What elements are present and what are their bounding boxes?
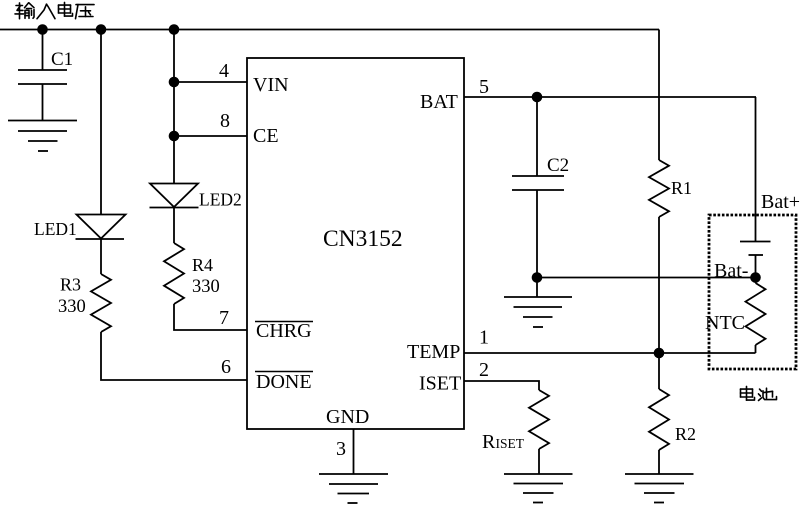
- svg-text:ISET: ISET: [419, 373, 461, 395]
- svg-text:VIN: VIN: [253, 74, 289, 96]
- svg-text:5: 5: [479, 76, 489, 98]
- wire: R4 to CHRG pin 7: [174, 304, 247, 330]
- wire: LED2 branch vertical: [173, 30, 175, 184]
- node: junction dot C2 tap: [532, 92, 543, 103]
- svg-text:8: 8: [220, 110, 230, 132]
- diode LED2: [150, 184, 199, 244]
- svg-text:6: 6: [221, 356, 231, 378]
- svg-text:DONE: DONE: [256, 371, 312, 393]
- pin name DONE with overline: [255, 371, 313, 393]
- svg-text:1: 1: [479, 327, 489, 349]
- svg-text:R2: R2: [675, 424, 696, 444]
- resistor R2: [649, 353, 669, 474]
- ground: below GND pin: [319, 474, 388, 503]
- svg-text:CN3152: CN3152: [323, 226, 403, 252]
- svg-text:LED1: LED1: [34, 219, 77, 239]
- ground: below C2: [504, 278, 572, 328]
- svg-text:330: 330: [58, 297, 86, 317]
- svg-text:7: 7: [219, 307, 229, 329]
- capacitor C1: [18, 30, 67, 121]
- svg-text:Bat+: Bat+: [761, 191, 800, 213]
- node: junction dot CE pin: [169, 131, 180, 142]
- svg-text:BAT: BAT: [420, 91, 458, 113]
- wire: CE pin 8: [174, 135, 247, 137]
- wire: R1 top drop from rail: [658, 30, 660, 161]
- wire: ISET pin 2: [464, 381, 539, 390]
- wire: R1 bottom to TEMP node: [658, 217, 660, 353]
- label 输入电压 (input voltage): [15, 2, 94, 18]
- svg-text:R3: R3: [60, 275, 81, 295]
- resistor NTC: [746, 278, 766, 354]
- node: junction dot at LED2/VIN tap: [169, 24, 180, 35]
- svg-text:R4: R4: [192, 255, 213, 275]
- node: junction dot at LED1 tap: [96, 24, 107, 35]
- wire: LED1 branch vertical: [100, 30, 102, 215]
- resistor R4: [164, 243, 184, 304]
- svg-text:TEMP: TEMP: [407, 341, 460, 363]
- svg-text:C1: C1: [51, 49, 73, 70]
- svg-text:R1: R1: [671, 178, 692, 198]
- node: junction dot C2 bottom / Bat- rail: [532, 272, 543, 283]
- svg-text:ISET: ISET: [496, 436, 525, 451]
- node: junction dot Bat-: [750, 272, 761, 283]
- battery cell: Bat+ terminal: [740, 97, 771, 278]
- node: junction dot TEMP/R2: [654, 348, 665, 359]
- wire: VIN top rail: [0, 29, 659, 31]
- battery box dotted outline: [709, 215, 796, 369]
- resistor R1: [649, 160, 669, 217]
- op-amp U1: IC CN3152 body: [247, 58, 464, 429]
- resistor R3: [91, 274, 111, 332]
- svg-text:2: 2: [479, 359, 489, 381]
- diode LED1: [76, 215, 126, 275]
- wire: VIN pin 4: [174, 81, 247, 83]
- svg-text:NTC: NTC: [705, 312, 745, 334]
- node: junction dot VIN pin: [169, 77, 180, 88]
- ground: below RISET: [504, 474, 573, 503]
- svg-text:R: R: [482, 431, 496, 453]
- svg-text:C2: C2: [547, 155, 569, 176]
- svg-text:GND: GND: [326, 406, 369, 428]
- svg-text:Bat-: Bat-: [714, 260, 748, 282]
- label RISET: [482, 431, 525, 453]
- wire: TEMP pin 1: [464, 352, 756, 354]
- ground: below R2: [625, 474, 694, 503]
- svg-text:LED2: LED2: [199, 190, 242, 210]
- ground: below C1: [8, 121, 77, 152]
- label 电池 (battery): [741, 386, 777, 400]
- svg-text:330: 330: [192, 277, 220, 297]
- pin name CHRG with overline: [255, 320, 313, 342]
- node: junction dot at C1 tap: [37, 24, 48, 35]
- svg-text:3: 3: [336, 438, 346, 460]
- svg-text:CE: CE: [253, 125, 279, 147]
- svg-text:4: 4: [219, 60, 229, 82]
- svg-text:CHRG: CHRG: [256, 320, 312, 342]
- capacitor C2: [512, 97, 564, 278]
- wire: Bat- rail: [537, 277, 756, 279]
- wire: GND pin 3: [353, 429, 355, 474]
- wire: BAT pin 5: [464, 96, 756, 98]
- resistor RISET: [529, 390, 549, 474]
- wire: R3 to DONE pin 6: [101, 332, 247, 380]
